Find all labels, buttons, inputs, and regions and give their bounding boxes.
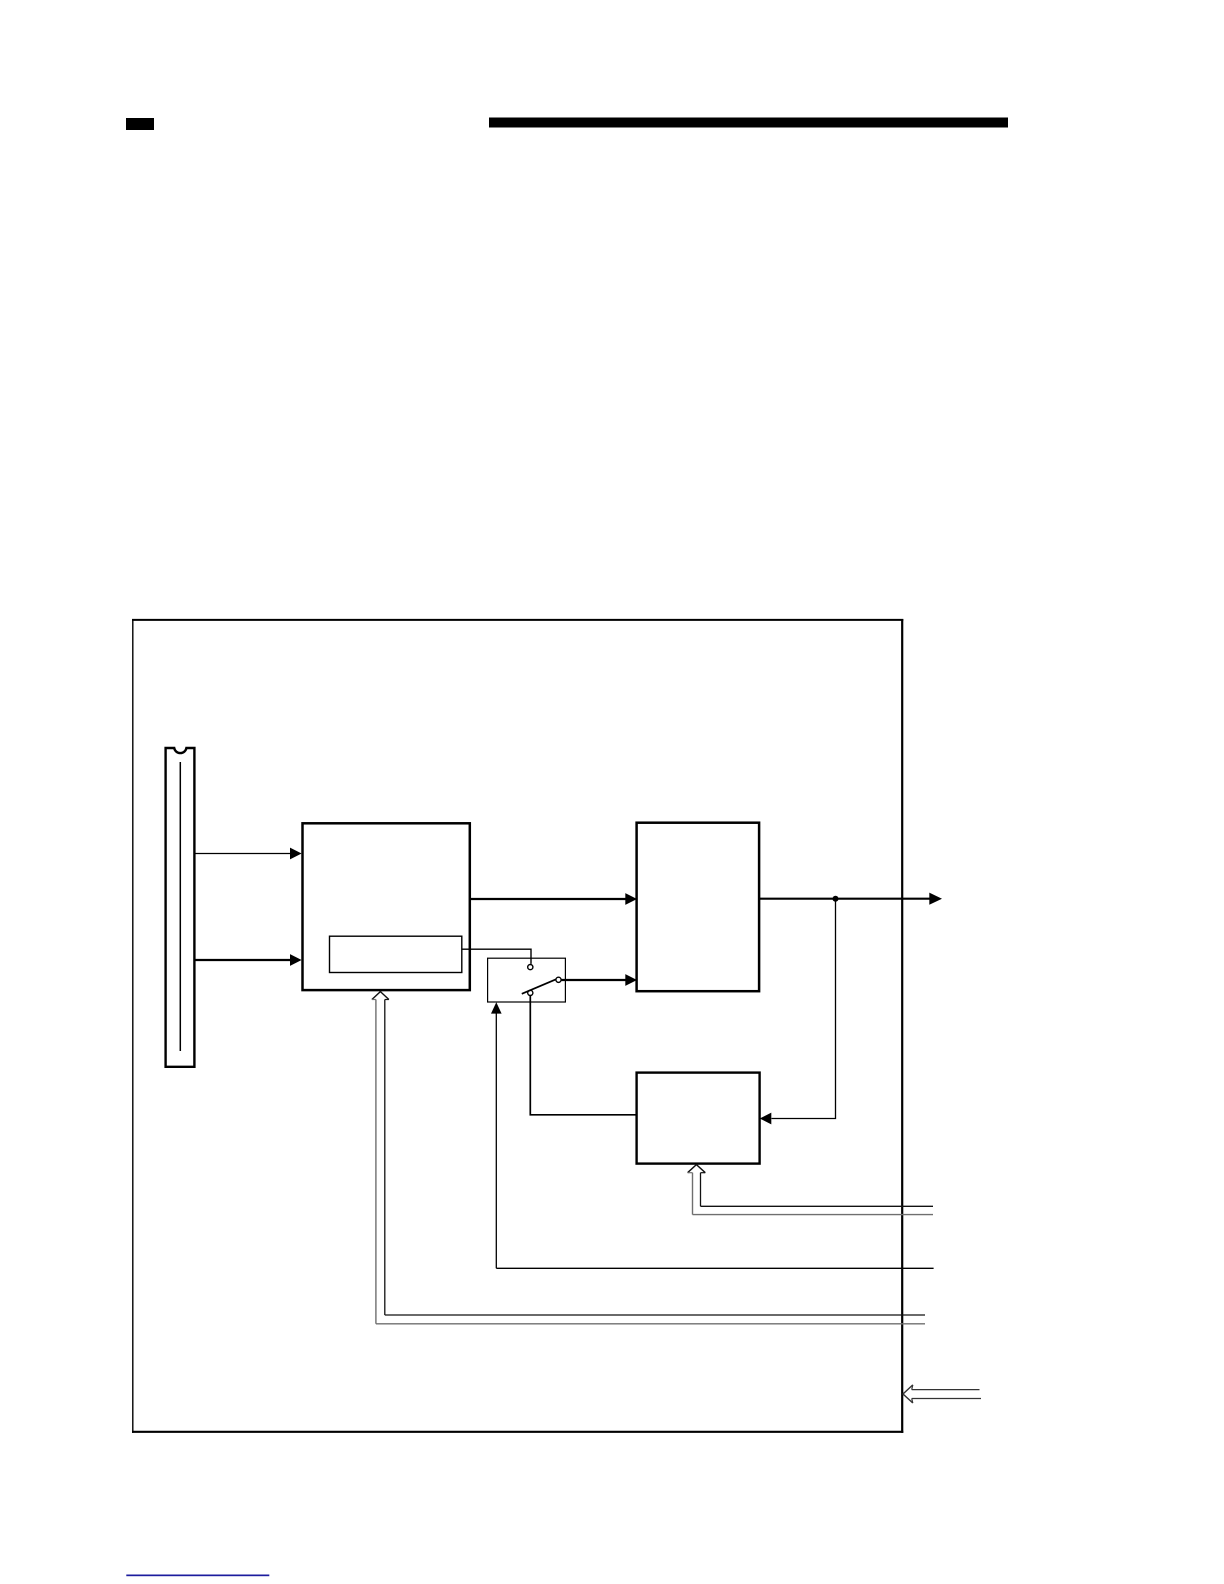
wire: feedback from junction down to box3 (760, 899, 836, 1125)
switch contact bottom (528, 990, 533, 995)
wire: box3 to switch common (530, 995, 636, 1115)
connector J1 body (166, 748, 195, 1067)
switch box (488, 958, 566, 1002)
wire: connector to box1 lower (196, 954, 302, 966)
junction node on output wire (833, 896, 839, 902)
bus arrow into box3 bottom (688, 1165, 933, 1215)
external input open arrow at bottom right (903, 1385, 981, 1403)
wire: sub-block to switch contact (462, 949, 531, 964)
switch contact right (556, 977, 561, 982)
bus arrow into box1 bottom (372, 992, 925, 1324)
switch lever (522, 979, 556, 994)
wire: connector to box1 upper (196, 848, 302, 860)
block box2 (637, 823, 760, 992)
wire: box1 to box2 (471, 893, 638, 905)
block box1 (303, 823, 470, 990)
connector center line (179, 762, 181, 1051)
sub-block inside box1 (330, 936, 462, 972)
header tab mark (126, 118, 154, 130)
control wire with arrow into switch bottom (491, 1002, 934, 1268)
wire: box2 output to right (759, 893, 942, 905)
footer link line (126, 1575, 269, 1577)
wire: switch to box2 (561, 974, 637, 986)
switch contact top (528, 965, 533, 970)
header title bar (489, 118, 1008, 128)
diagram frame (132, 619, 903, 1433)
block box3 (637, 1073, 760, 1164)
